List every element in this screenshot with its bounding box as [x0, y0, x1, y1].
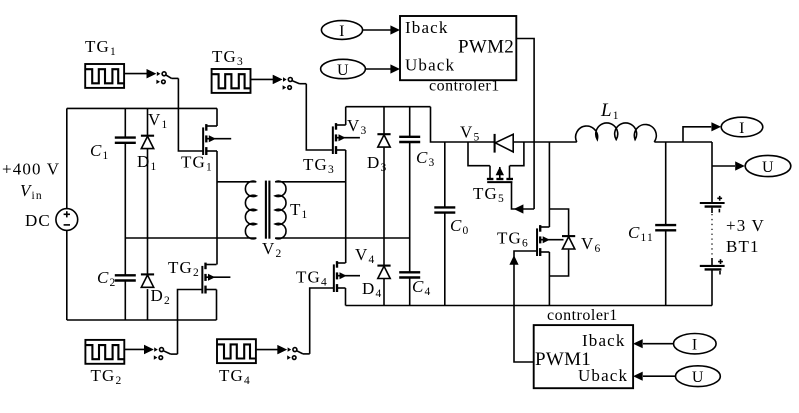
diode V5 body — [495, 134, 514, 153]
svg-text:DC: DC — [25, 211, 51, 230]
capacitor C1 plates — [115, 138, 136, 143]
wire V3 drain — [345, 107, 347, 125]
switch S-TG1 — [147, 69, 179, 84]
wire V3 source to V4 drain — [345, 150, 347, 263]
wire C0 bottom — [444, 213, 446, 305]
battery BT1 cell2 minus tick — [719, 271, 721, 275]
diode D4 — [377, 266, 390, 279]
svg-text:I: I — [692, 337, 698, 354]
measurement probe I in top — [321, 21, 362, 40]
measurement probe U out — [745, 155, 791, 176]
wire V1 drain — [216, 108, 218, 126]
wire left rail upper — [66, 108, 68, 208]
wire main line diode to L1 — [513, 141, 577, 143]
transformer secondary winding — [275, 181, 346, 239]
wire C0 top — [444, 142, 446, 207]
wire PWM2 output — [516, 39, 534, 210]
wire L1 to output node — [654, 141, 712, 143]
svg-text:+400 V: +400 V — [2, 160, 60, 179]
svg-text:U: U — [692, 369, 704, 386]
svg-text:controler1: controler1 — [429, 78, 500, 95]
svg-text:U: U — [337, 62, 349, 79]
capacitor C2 plates — [115, 275, 136, 280]
wire D1 top — [147, 108, 149, 135]
wire TG6 gate from PWM1 — [514, 251, 538, 362]
transistor V5 with series diode — [468, 142, 524, 182]
wire mid rail to primary winding — [125, 237, 256, 239]
wire V6 source — [548, 252, 550, 306]
DC source — [56, 209, 78, 231]
svg-text:Iback: Iback — [582, 331, 626, 350]
wire voltage probe tap — [711, 165, 713, 167]
wire left rail lower — [66, 230, 68, 320]
wire D4 bottom — [383, 279, 385, 306]
controller PWM2 box — [400, 16, 516, 80]
wire bottom rail primary — [67, 319, 217, 321]
wire V5 gate — [512, 182, 535, 209]
transistor V3 — [333, 123, 360, 154]
diode D2 — [141, 274, 154, 287]
wire switch TG2 to V2 gate — [178, 290, 203, 355]
measurement probe U in top — [321, 59, 366, 79]
wire C4 bottom — [409, 278, 411, 306]
battery BT1 plus mark — [717, 196, 722, 201]
wire I to PWM1 — [643, 343, 674, 345]
measurement probe I in bottom — [674, 334, 717, 354]
wire D2 bottom — [147, 289, 149, 320]
wire C3 top — [409, 107, 411, 137]
wire top rail secondary — [346, 106, 431, 108]
svg-text:I: I — [339, 23, 345, 40]
capacitor C3 plates — [399, 137, 420, 142]
capacitor C4 plates — [399, 272, 420, 277]
svg-text:Uback: Uback — [405, 56, 455, 75]
wire C1 to C2 — [124, 143, 126, 274]
wire D1 to D2 — [147, 149, 149, 275]
svg-text:I: I — [739, 120, 745, 137]
wire V6 diode branch — [549, 209, 568, 236]
switch S-TG2 — [144, 345, 178, 360]
transistor V6 — [537, 225, 563, 256]
pulse generator TG3 — [212, 69, 251, 93]
transistor V1 — [203, 124, 231, 155]
diode D3 — [377, 134, 390, 147]
wire V4 source — [345, 288, 347, 306]
pulse generator TG2 — [85, 340, 124, 364]
switch S-TG3 — [273, 75, 307, 90]
wire C3 to C4 — [409, 143, 411, 272]
transistor V2 — [202, 263, 230, 294]
wire switch TG4 to V4 gate — [310, 288, 335, 354]
transformer T1 core — [266, 181, 270, 239]
svg-text:BT1: BT1 — [726, 237, 760, 256]
diode V6 body diode — [562, 236, 575, 249]
wire switch TG1 to V1 gate — [178, 78, 203, 151]
wire C11 bottom — [665, 230, 667, 306]
wire TG2 output — [124, 348, 145, 350]
wire secondary bottom rail — [275, 237, 410, 239]
transformer primary winding — [217, 181, 256, 239]
wire D3 to D4 — [383, 147, 385, 266]
svg-text:Uback: Uback — [578, 366, 628, 385]
transistor V4 — [334, 261, 360, 292]
inductor L1 — [576, 123, 657, 142]
wire V2 source — [216, 290, 218, 321]
wire switch TG3 to V3 gate — [306, 84, 333, 150]
measurement probe U in bottom — [676, 366, 721, 387]
wire top rail primary — [67, 107, 217, 109]
switch S-TG4 — [277, 345, 309, 360]
controller PWM1 box — [534, 325, 633, 388]
wire switching node V1 source to V2 drain — [216, 151, 218, 265]
svg-text:PWM2: PWM2 — [458, 37, 514, 58]
svg-text:Iback: Iback — [405, 18, 449, 37]
wire U to PWM1 — [643, 375, 675, 377]
wire current probe tap — [683, 127, 711, 142]
wire TG3 output — [251, 78, 274, 80]
wire ground rail secondary — [346, 305, 713, 307]
wire battery bottom — [711, 270, 713, 306]
measurement probe I out — [721, 117, 763, 137]
wire C2 bottom — [124, 281, 126, 320]
battery BT1 cell 2 — [700, 266, 725, 270]
pulse generator TG4 — [217, 339, 256, 363]
wire TG4 output — [256, 349, 279, 351]
wire U to PWM2 — [365, 68, 391, 70]
wire C11 top — [665, 142, 667, 225]
wire TG1 output — [124, 73, 147, 75]
wire V6 drain — [548, 142, 550, 227]
svg-text:controler1: controler1 — [547, 307, 618, 324]
diode D1 — [141, 136, 154, 149]
capacitor C0 plates — [434, 207, 455, 212]
svg-text:U: U — [762, 159, 774, 176]
pulse generator TG1 — [85, 64, 124, 88]
wire I to PWM2 — [363, 29, 391, 31]
battery BT1 minus tick — [718, 209, 720, 213]
capacitor C11 plates — [655, 225, 676, 230]
svg-text:+3 V: +3 V — [726, 216, 765, 235]
wire battery dotted middle — [711, 208, 713, 213]
capacitor C1 branch wire upper — [124, 108, 126, 137]
wire V6 diode bottom — [549, 250, 568, 276]
battery BT1 cell 1 — [700, 203, 725, 207]
wire D3 top — [383, 107, 385, 135]
wire step down to main line — [431, 107, 495, 142]
battery BT1 cell2 plus mark — [718, 259, 723, 264]
wire output node down to battery — [711, 142, 713, 203]
